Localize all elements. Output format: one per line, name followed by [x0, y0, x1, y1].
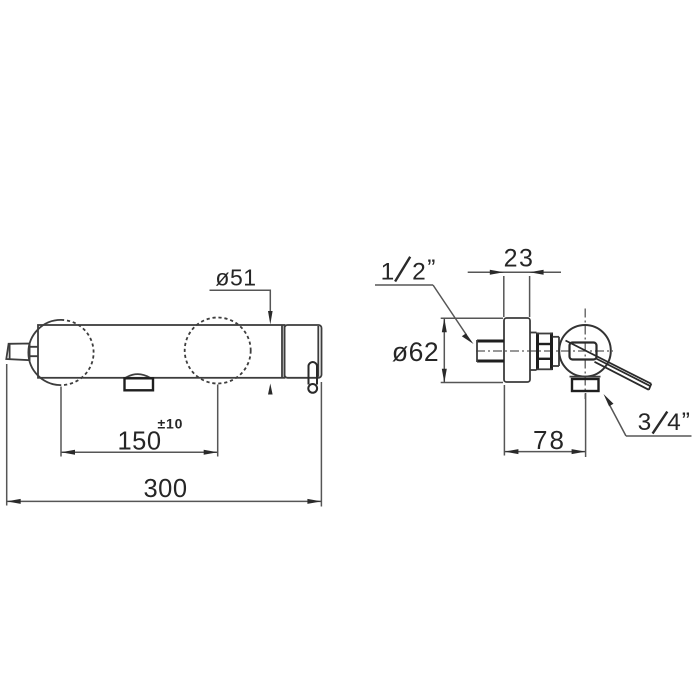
- svg-text:150: 150: [117, 427, 161, 455]
- svg-text:ø62: ø62: [392, 337, 439, 367]
- svg-text:”: ”: [682, 408, 690, 435]
- svg-text:23: 23: [504, 245, 535, 273]
- svg-text:78: 78: [533, 425, 566, 455]
- svg-text:4: 4: [667, 409, 681, 436]
- svg-text:1: 1: [381, 259, 395, 286]
- svg-text:2: 2: [412, 259, 426, 286]
- svg-text:”: ”: [427, 255, 435, 282]
- svg-text:3: 3: [638, 409, 652, 436]
- svg-text:ø51: ø51: [215, 265, 256, 291]
- svg-text:300: 300: [143, 475, 187, 503]
- svg-text:±10: ±10: [158, 416, 184, 432]
